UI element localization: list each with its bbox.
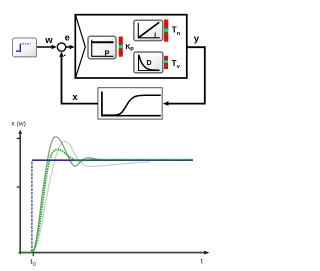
response curve green dotted (tuned) <box>21 149 194 252</box>
svg-text:0: 0 <box>33 262 36 268</box>
svg-text:x (w): x (w) <box>11 121 26 128</box>
setpoint step vertical (blue dashed) <box>31 161 33 252</box>
label Tv <box>172 59 181 70</box>
step input source block W <box>13 38 37 57</box>
response curve light gray (slow oscillation) <box>33 141 150 252</box>
chart x-axis <box>19 251 210 257</box>
svg-text:D: D <box>147 60 152 67</box>
wire x (plant output feedback to summing junction) <box>59 52 98 104</box>
controller block (PID) <box>75 15 187 78</box>
summing junction <box>57 43 65 51</box>
slider Kp <box>119 37 123 57</box>
label Tn <box>172 26 181 38</box>
slider Tn <box>164 20 168 42</box>
svg-text:p: p <box>130 46 134 52</box>
svg-text:x: x <box>72 92 78 103</box>
plant block (process with sigmoid step response) <box>98 88 162 119</box>
P block <box>88 36 116 59</box>
wire w (step to summing junction) <box>37 45 57 49</box>
I block <box>134 20 163 40</box>
D block <box>134 52 163 73</box>
response curve dark gray (fast with overshoot) <box>33 137 114 252</box>
wire y (controller output, down to plant) <box>163 47 205 106</box>
chart label t0 <box>30 257 35 268</box>
minus sign at summing junction <box>64 54 66 56</box>
svg-text:P: P <box>105 49 110 58</box>
label Kp <box>125 42 134 52</box>
svg-text:e: e <box>65 33 70 43</box>
chart y-axis <box>17 130 23 254</box>
svg-text:w: w <box>44 35 53 46</box>
svg-text:y: y <box>194 33 200 44</box>
wire e (summing junction to controller) <box>66 45 75 49</box>
svg-text:I: I <box>154 32 156 39</box>
setpoint step horizontal (blue) <box>32 159 193 161</box>
slider Tv <box>164 56 168 69</box>
